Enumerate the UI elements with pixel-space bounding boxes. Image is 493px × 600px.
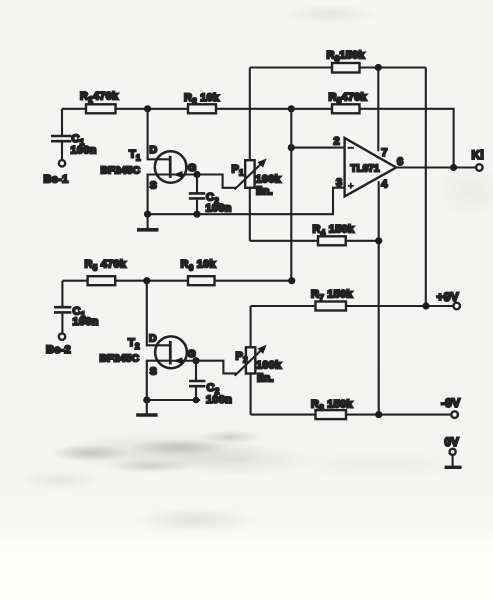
wire R5b-R6 (115, 280, 188, 282)
terminal -9V (441, 396, 460, 418)
wire T1 drain (148, 109, 171, 160)
svg-text:6: 6 (397, 156, 403, 168)
wire pin 2 (291, 147, 344, 149)
svg-text:R4 150k: R4 150k (313, 224, 355, 238)
capacitor C2 channel 2 (189, 361, 232, 406)
svg-text:R5 470k: R5 470k (85, 259, 127, 273)
svg-text:T2: T2 (128, 337, 140, 351)
node C2 junction (193, 211, 200, 218)
node R3/pin7 junction (375, 64, 382, 71)
svg-text:100n: 100n (73, 316, 99, 328)
node T1 gate junction (193, 171, 200, 178)
svg-text:R1470k: R1470k (80, 91, 119, 105)
svg-text:100n: 100n (206, 394, 232, 406)
wire T2 drain (147, 281, 171, 346)
resistor R2 (184, 92, 220, 113)
svg-text:R5470k: R5470k (329, 92, 368, 106)
svg-text:4: 4 (381, 178, 388, 190)
ground symbol ch2 (136, 400, 157, 415)
svg-text:lin.: lin. (256, 186, 273, 198)
svg-text:100k: 100k (256, 174, 282, 186)
node source junction (144, 211, 151, 218)
ground symbol ch1 (137, 214, 159, 230)
svg-text:Be-1: Be-1 (44, 174, 69, 186)
wire source rail ch2 (147, 399, 200, 401)
node R7/+9V junction (422, 302, 429, 309)
node feedback/output junction (450, 164, 457, 171)
svg-text:D: D (150, 144, 158, 156)
svg-text:TL071: TL071 (351, 164, 380, 175)
node R8/pin4 junction (375, 411, 382, 418)
capacitor C1 input 1 (51, 133, 97, 160)
wire summing vertical (290, 109, 292, 281)
svg-text:R8 150k: R8 150k (311, 399, 353, 413)
svg-text:P1: P1 (232, 164, 245, 178)
wire R3 corner to +9V rail (425, 68, 427, 307)
capacitor C2 channel 1 (189, 175, 232, 215)
svg-text:+9V: +9V (437, 290, 459, 304)
svg-text:100k: 100k (256, 360, 282, 372)
terminal Ki output (472, 148, 485, 171)
svg-text:100n: 100n (71, 145, 97, 157)
svg-text:D: D (149, 333, 157, 345)
resistor R3 (250, 50, 426, 73)
resistor R7 (251, 289, 454, 311)
svg-text:BF245C: BF245C (101, 166, 141, 177)
capacitor C1 input 2 (54, 306, 99, 334)
node summing junction 2 (288, 277, 295, 284)
node source junction 2 (143, 396, 150, 403)
node junction R5/R6/T2-drain (143, 277, 150, 284)
wire output (396, 166, 476, 168)
terminal 0V ground reference (445, 437, 462, 467)
op-amp U1 TL071 (334, 136, 404, 197)
wire pin 4 to negative rail (378, 181, 380, 414)
node T2 gate junction (192, 357, 199, 364)
svg-text:S: S (150, 180, 157, 192)
svg-text:0V: 0V (445, 437, 460, 449)
svg-text:100n: 100n (206, 203, 232, 215)
svg-text:-9V: -9V (441, 396, 460, 410)
node pin2 junction (288, 144, 295, 151)
svg-text:S: S (150, 366, 157, 378)
wire R2 to summing node (216, 108, 291, 110)
transistor T2 BF245C (100, 333, 197, 378)
resistor R5 feedback 470k (329, 92, 368, 114)
wire ground rail ch1 to pin3 (148, 188, 345, 215)
svg-text:Ki: Ki (472, 148, 485, 162)
potentiometer P2 (196, 306, 282, 415)
terminal Be-2 (46, 333, 71, 356)
node summing junction (288, 105, 295, 112)
resistor R6 (181, 259, 217, 286)
wire node to R5 feedback (291, 108, 332, 110)
node junction R1/R2/T1-drain (144, 105, 151, 112)
resistor R1 (80, 91, 119, 114)
svg-text:Be-2: Be-2 (46, 344, 71, 356)
svg-text:R3150k: R3150k (327, 50, 366, 64)
svg-text:BF245C: BF245C (100, 354, 140, 365)
wire R1-R2 (116, 108, 189, 110)
svg-text:3: 3 (336, 177, 342, 189)
wire R6 to summing node (215, 280, 292, 282)
resistor R5 input 2 (85, 259, 127, 286)
wire input-1 top (62, 109, 86, 135)
wire T2 source (147, 361, 171, 400)
resistor R8 (251, 399, 452, 420)
svg-text:lin.: lin. (257, 373, 274, 385)
svg-text:R2 10k: R2 10k (184, 92, 220, 106)
wire pin 7 (377, 68, 379, 152)
wire T1 source (148, 175, 171, 215)
potentiometer P1 (197, 68, 282, 241)
node C2b junction (193, 397, 200, 404)
transistor T1 BF245C (101, 144, 198, 192)
svg-text:R7 150k: R7 150k (311, 289, 353, 303)
svg-text:2: 2 (334, 136, 340, 148)
svg-text:T1: T1 (129, 149, 141, 163)
node R4/pin4 junction (375, 237, 382, 244)
resistor R4 (250, 224, 379, 246)
svg-text:7: 7 (381, 147, 387, 159)
wire input-2 top (62, 281, 87, 306)
svg-text:R6 10k: R6 10k (181, 259, 217, 273)
terminal Be-1 (44, 160, 69, 185)
terminal +9V (437, 290, 461, 309)
wire R5 to output corner (360, 109, 454, 168)
